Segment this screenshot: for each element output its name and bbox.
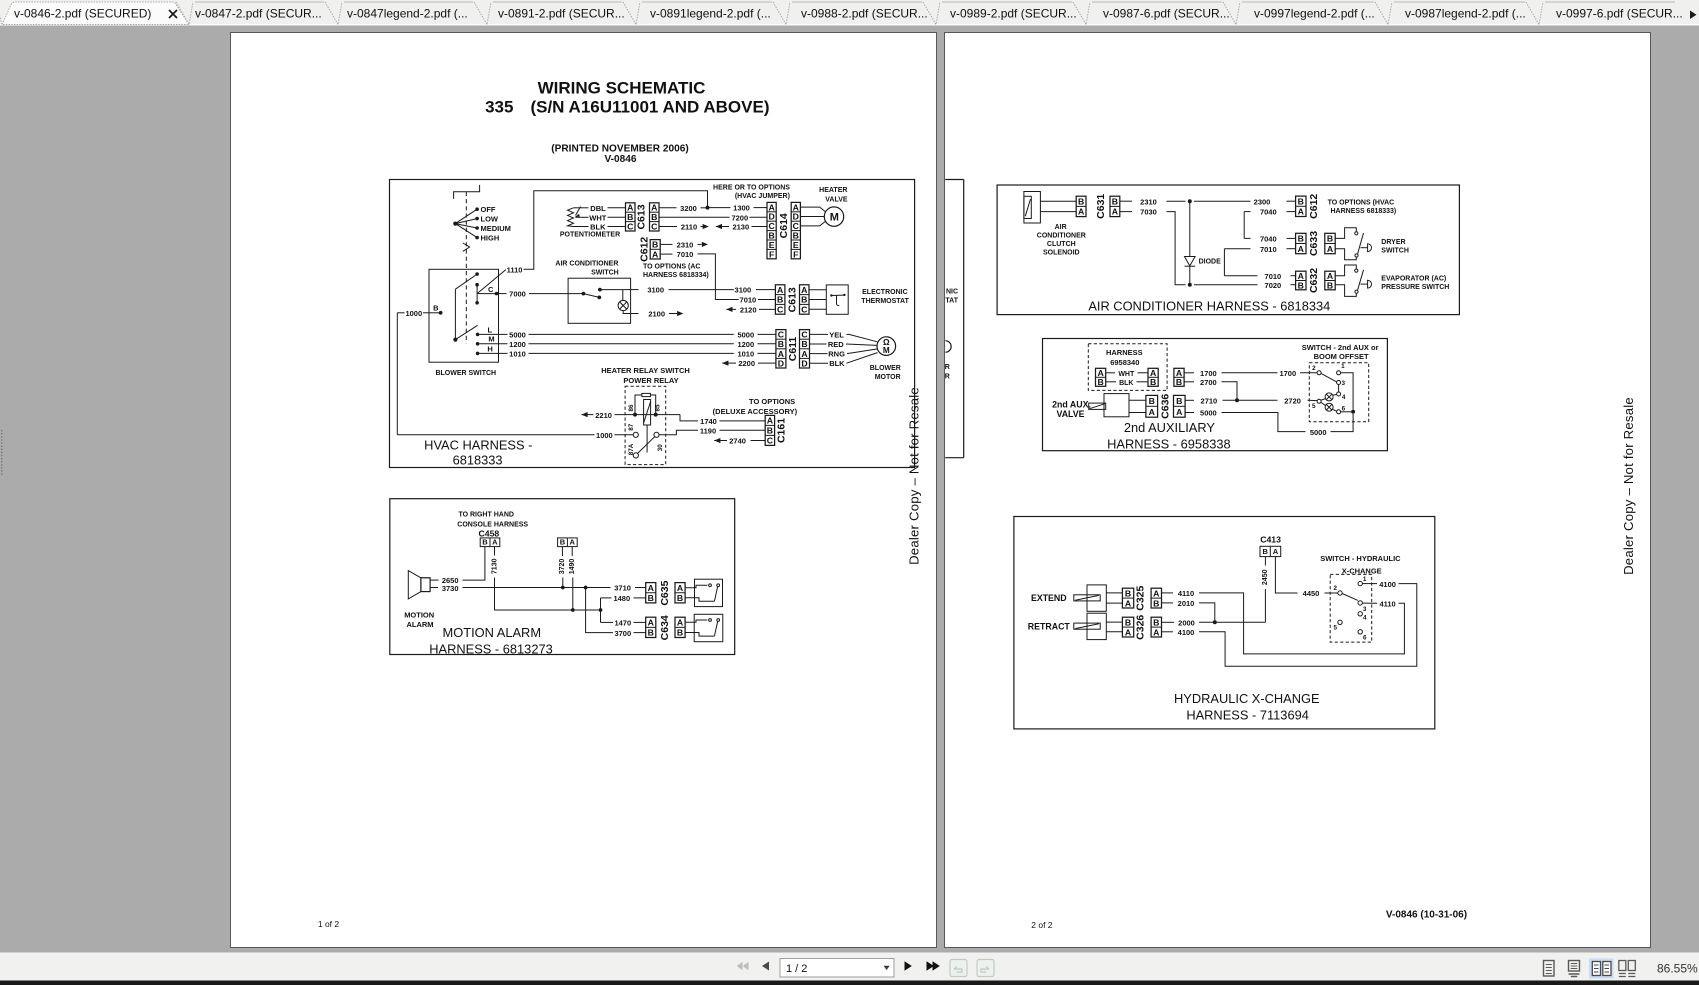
svg-text:SWITCH - HYDRAULIC: SWITCH - HYDRAULIC xyxy=(1320,554,1401,563)
svg-text:HARNESS: HARNESS xyxy=(1106,348,1143,357)
dryer switch xyxy=(1335,228,1356,239)
svg-text:4110: 4110 xyxy=(1379,600,1395,609)
svg-text:C: C xyxy=(627,222,634,232)
svg-text:335 (S/N A16U11001 AND ABOVE): 335 (S/N A16U11001 AND ABOVE) xyxy=(485,97,769,116)
svg-text:WHT: WHT xyxy=(589,213,606,222)
connector C325 right half xyxy=(1151,588,1161,608)
svg-text:BLOWER SWITCH: BLOWER SWITCH xyxy=(435,370,496,377)
svg-text:SWITCH: SWITCH xyxy=(1381,247,1409,254)
heater valve wires xyxy=(800,207,825,212)
svg-text:1200: 1200 xyxy=(509,340,526,349)
svg-text:BLK: BLK xyxy=(829,359,845,368)
svg-text:7040: 7040 xyxy=(1260,235,1277,244)
svg-text:ELECTRONIC: ELECTRONIC xyxy=(862,289,908,296)
svg-text:A: A xyxy=(677,583,684,593)
two page continuous view icon xyxy=(1619,961,1626,971)
svg-text:RETRACT: RETRACT xyxy=(1028,621,1071,631)
svg-text:1000: 1000 xyxy=(596,431,613,440)
wire 1490 xyxy=(571,547,573,556)
wire 1190 from contact 30 xyxy=(659,430,698,435)
svg-text:THERMOSTAT: THERMOSTAT xyxy=(861,298,909,305)
svg-text:3100: 3100 xyxy=(647,286,664,295)
ac indicator lamp xyxy=(618,300,628,310)
wire 3700 branch xyxy=(586,588,613,633)
svg-text:HARNESS - 6813273: HARNESS - 6813273 xyxy=(429,641,553,656)
door switch 2 box xyxy=(694,614,723,641)
svg-text:v-0987-6.pdf (SECUR...: v-0987-6.pdf (SECUR... xyxy=(1103,7,1230,21)
svg-text:F: F xyxy=(793,249,798,259)
2nd auxiliary harness box frame xyxy=(1043,339,1388,451)
svg-text:4: 4 xyxy=(1342,394,1346,401)
previous page button xyxy=(762,962,769,971)
svg-text:B: B xyxy=(1149,396,1155,406)
relay coil xyxy=(642,393,651,396)
blower switch H contact xyxy=(476,352,480,356)
svg-text:Dealer Copy – Not for Resale: Dealer Copy – Not for Resale xyxy=(1621,397,1636,575)
tab bar background xyxy=(0,0,1699,25)
svg-text:BLK: BLK xyxy=(590,223,606,232)
2nd aux valve symbol xyxy=(1104,394,1129,417)
svg-text:B: B xyxy=(648,628,654,638)
svg-text:SOLENOID: SOLENOID xyxy=(1043,249,1080,256)
svg-text:85: 85 xyxy=(655,404,662,412)
switch hydraulic dashed box xyxy=(1330,574,1372,642)
electronic thermostat box xyxy=(826,285,848,314)
connector C613 left half xyxy=(626,203,636,231)
connector C635 right half xyxy=(675,583,685,603)
svg-text:B: B xyxy=(801,339,807,349)
svg-text:2450: 2450 xyxy=(1262,569,1269,585)
svg-text:D: D xyxy=(801,358,807,368)
motion alarm box frame xyxy=(390,499,735,655)
heater valve motor circle xyxy=(824,207,843,226)
svg-text:C: C xyxy=(777,305,784,315)
svg-text:2710: 2710 xyxy=(1201,396,1218,405)
svg-text:5000: 5000 xyxy=(1310,428,1327,437)
svg-text:1700: 1700 xyxy=(1279,369,1296,378)
page 1 sheet xyxy=(231,33,937,948)
svg-text:HARNESS - 7113694: HARNESS - 7113694 xyxy=(1186,707,1309,722)
wire 2650 from C458-B xyxy=(463,547,485,581)
aux lamp 2 links xyxy=(1321,403,1325,406)
aux switch blade xyxy=(1321,373,1337,382)
svg-text:M: M xyxy=(830,212,839,224)
svg-text:MOTION: MOTION xyxy=(404,611,434,620)
wire 1000 bottom run xyxy=(397,434,594,436)
svg-text:C611: C611 xyxy=(787,337,799,362)
svg-text:6: 6 xyxy=(1363,635,1367,642)
wire 1300 xyxy=(710,207,731,209)
tab v-0891-2.pdf (SECUR xyxy=(474,2,491,25)
svg-text:2: 2 xyxy=(1334,585,1338,592)
wire 1200 row xyxy=(479,343,507,345)
connector C631 left half xyxy=(1076,196,1086,216)
svg-text:A: A xyxy=(1273,547,1279,556)
connector C611 right half xyxy=(800,330,810,368)
svg-text:C: C xyxy=(488,285,494,294)
two page view icon (active) xyxy=(1589,959,1614,979)
svg-text:1740: 1740 xyxy=(700,417,717,426)
svg-text:3730: 3730 xyxy=(442,584,459,593)
extend valve symbol xyxy=(1087,585,1106,611)
wire 3200 xyxy=(659,207,677,209)
svg-text:C632: C632 xyxy=(1308,268,1320,293)
svg-text:B: B xyxy=(1078,197,1084,207)
tab v-0997-6.pdf (SECUR xyxy=(1526,2,1543,25)
svg-text:A: A xyxy=(1125,627,1132,637)
svg-text:PRESSURE SWITCH: PRESSURE SWITCH xyxy=(1381,284,1449,291)
svg-text:R: R xyxy=(945,364,950,371)
svg-text:A: A xyxy=(1078,207,1085,217)
wire WHT aux xyxy=(1106,372,1115,374)
svg-text:WHT: WHT xyxy=(1118,371,1135,378)
page number box 1 / 2 xyxy=(780,959,894,978)
svg-text:7040: 7040 xyxy=(1260,208,1277,217)
svg-text:C613: C613 xyxy=(786,287,798,312)
svg-text:M: M xyxy=(883,346,890,355)
svg-text:BLK: BLK xyxy=(1119,380,1133,387)
ac switch left contact xyxy=(582,292,586,296)
svg-text:3720: 3720 xyxy=(559,559,566,575)
ac clutch solenoid symbol xyxy=(1024,192,1041,224)
svg-text:TO OPTIONS (AC: TO OPTIONS (AC xyxy=(643,263,700,270)
svg-text:1470: 1470 xyxy=(614,619,631,628)
svg-text:5: 5 xyxy=(1312,403,1316,410)
svg-text:5000: 5000 xyxy=(509,331,526,340)
svg-text:NIC: NIC xyxy=(946,289,958,296)
rotary switch top bracket xyxy=(454,185,480,199)
page 2 sheet xyxy=(945,33,1651,948)
svg-text:2010: 2010 xyxy=(1178,599,1195,608)
blower motor circle xyxy=(877,337,896,356)
svg-text:1 of 2: 1 of 2 xyxy=(318,919,340,929)
aux switch contact 3-4 link xyxy=(1338,385,1340,393)
svg-text:B: B xyxy=(777,295,783,305)
blower switch L contact xyxy=(476,333,480,337)
wire 3720 xyxy=(561,547,563,556)
door switch 1 contacts xyxy=(685,585,707,587)
wire 1470 stub xyxy=(601,621,614,623)
svg-text:B: B xyxy=(1176,377,1182,387)
aux switch wire from contact 1 xyxy=(1341,373,1354,410)
svg-text:(PRINTED NOVEMBER 2006): (PRINTED NOVEMBER 2006) xyxy=(551,143,688,154)
svg-text:2130: 2130 xyxy=(732,223,749,232)
svg-text:2210: 2210 xyxy=(595,411,612,420)
svg-text:VALVE: VALVE xyxy=(825,196,848,203)
solenoid wires xyxy=(1040,200,1076,202)
svg-text:4450: 4450 xyxy=(1303,589,1320,598)
svg-text:POTENTIOMETER: POTENTIOMETER xyxy=(560,231,620,238)
svg-text:DRYER: DRYER xyxy=(1381,239,1405,246)
ac switch arm xyxy=(583,294,599,298)
svg-text:TO OPTIONS: TO OPTIONS xyxy=(749,397,795,406)
svg-text:2740: 2740 xyxy=(729,437,746,446)
svg-text:2700: 2700 xyxy=(1200,378,1217,387)
wire 2450 from C413-B xyxy=(1264,557,1266,566)
svg-text:B: B xyxy=(482,537,488,546)
svg-text:H: H xyxy=(487,344,492,353)
blower switch lower arm xyxy=(455,325,477,339)
svg-text:A: A xyxy=(801,285,808,295)
svg-text:A: A xyxy=(1112,207,1119,217)
svg-text:EVAPORATOR (AC): EVAPORATOR (AC) xyxy=(1381,275,1446,282)
svg-text:OFF: OFF xyxy=(481,205,496,214)
active tab v-0846-2.pdf (SECURED) xyxy=(2,2,189,25)
svg-text:2 of 2: 2 of 2 xyxy=(1031,920,1053,930)
svg-text:v-0846-2.pdf (SECURED): v-0846-2.pdf (SECURED) xyxy=(14,7,151,21)
wire 1000 left riser xyxy=(396,313,398,435)
svg-text:(HVAC JUMPER): (HVAC JUMPER) xyxy=(735,193,790,200)
svg-text:LOW: LOW xyxy=(481,215,499,224)
svg-text:B: B xyxy=(560,537,566,546)
wire 2000 xyxy=(1162,621,1175,623)
svg-text:EXTEND: EXTEND xyxy=(1031,593,1067,603)
rotary contact LOW xyxy=(475,217,479,221)
svg-text:A: A xyxy=(767,416,774,426)
wire 5000 row xyxy=(479,333,507,335)
svg-text:5: 5 xyxy=(1334,625,1338,632)
valve wires xyxy=(1129,399,1146,401)
wire 3100 run xyxy=(623,289,639,291)
svg-text:B: B xyxy=(1262,547,1268,556)
hyd switch contact 5 xyxy=(1338,620,1342,624)
svg-text:1200: 1200 xyxy=(737,340,754,349)
rotary contact MEDIUM xyxy=(475,226,479,230)
connector C633 left half xyxy=(1296,233,1306,253)
next view button (disabled) xyxy=(977,960,994,977)
svg-text:CONDITIONER: CONDITIONER xyxy=(1037,232,1086,239)
svg-text:B: B xyxy=(1327,280,1333,290)
svg-text:C631: C631 xyxy=(1095,194,1107,219)
svg-text:6818333: 6818333 xyxy=(453,453,503,468)
svg-text:HARNESS - 6958338: HARNESS - 6958338 xyxy=(1107,436,1231,451)
svg-text:B: B xyxy=(648,593,654,603)
close button of active tab xyxy=(169,10,177,18)
svg-text:HEATER RELAY SWITCH: HEATER RELAY SWITCH xyxy=(601,366,690,375)
hyd switch contact 2 xyxy=(1338,591,1342,595)
svg-text:V-0846: V-0846 xyxy=(605,154,637,165)
tab v-0988-2.pdf (SECUR xyxy=(773,2,790,25)
tab v-0997legend-2.pdf ( xyxy=(1223,2,1240,25)
wire 7030 xyxy=(1120,211,1132,213)
svg-text:A: A xyxy=(569,537,575,546)
svg-text:B: B xyxy=(778,339,784,349)
svg-text:B: B xyxy=(433,303,439,312)
svg-text:87: 87 xyxy=(628,423,635,431)
svg-text:1700: 1700 xyxy=(1200,369,1217,378)
hyd switch contact 1 xyxy=(1358,581,1362,585)
svg-text:DIODE: DIODE xyxy=(1199,258,1222,265)
leftmost partial tab edge xyxy=(0,2,2,25)
svg-text:7030: 7030 xyxy=(1140,208,1157,217)
svg-text:Dealer Copy – Not for Resale: Dealer Copy – Not for Resale xyxy=(906,387,921,565)
svg-text:C634: C634 xyxy=(659,615,671,640)
page 2 overlap fragment box xyxy=(963,180,965,458)
svg-text:C413: C413 xyxy=(1260,535,1281,545)
HVAC harness box frame xyxy=(390,180,915,468)
continuous scroll view icon xyxy=(1569,961,1580,972)
connector C614 right half xyxy=(791,202,800,258)
svg-text:B: B xyxy=(767,426,773,436)
wire 2740 with arrow xyxy=(714,438,720,443)
svg-text:86: 86 xyxy=(628,404,635,412)
wire 2110 with arrow xyxy=(659,226,677,228)
svg-text:1110: 1110 xyxy=(507,265,523,274)
connector C612 xyxy=(650,240,660,259)
wire 1740 step xyxy=(680,415,698,421)
svg-text:A: A xyxy=(801,349,808,359)
svg-text:HARNESS 6818334): HARNESS 6818334) xyxy=(643,272,709,279)
connector C636 left half xyxy=(1146,395,1158,417)
svg-text:R: R xyxy=(945,373,950,380)
svg-text:A: A xyxy=(1298,207,1305,217)
svg-text:1: 1 xyxy=(1363,576,1367,583)
svg-text:C633: C633 xyxy=(1308,231,1320,256)
svg-text:C325: C325 xyxy=(1135,585,1147,610)
connector C631 right half xyxy=(1110,196,1120,216)
svg-text:C: C xyxy=(778,330,785,340)
bottom black strip xyxy=(0,981,1699,985)
wire 1010 row xyxy=(479,352,507,354)
svg-text:TAT: TAT xyxy=(945,298,958,305)
evaporator pressure switch xyxy=(1335,265,1356,276)
svg-text:4: 4 xyxy=(1363,615,1367,622)
wire 2210 with arrow xyxy=(581,412,587,417)
svg-text:2110: 2110 xyxy=(681,223,697,232)
retract valve symbol xyxy=(1087,613,1106,639)
svg-text:5000: 5000 xyxy=(1200,409,1217,418)
svg-text:C612: C612 xyxy=(639,237,651,262)
wire 2310 page2 xyxy=(1120,200,1132,202)
svg-text:BLOWER: BLOWER xyxy=(870,365,901,372)
svg-text:86.55%: 86.55% xyxy=(1657,961,1698,975)
wire 2710 2720 run xyxy=(1185,399,1194,401)
connector C326 right half xyxy=(1151,617,1161,637)
tab scroll right arrow xyxy=(1690,11,1697,20)
svg-text:1300: 1300 xyxy=(733,204,750,213)
connector C636 right half xyxy=(1174,395,1186,417)
door switch 1 box xyxy=(695,579,723,606)
svg-text:1010: 1010 xyxy=(737,350,754,359)
svg-text:DBL: DBL xyxy=(590,204,606,213)
single page view icon xyxy=(1544,961,1555,977)
aux lamp 1 links xyxy=(1321,399,1326,401)
wire BLK aux xyxy=(1106,381,1116,383)
svg-text:B: B xyxy=(1125,588,1131,598)
svg-text:C635: C635 xyxy=(659,580,671,605)
aux switch lamp 1 xyxy=(1325,393,1333,401)
svg-text:HEATER: HEATER xyxy=(819,187,847,194)
hyd switch contact 6 xyxy=(1358,630,1362,634)
diode junction top xyxy=(1188,199,1192,203)
wire RED xyxy=(810,343,827,345)
tab v-0987-6.pdf (SECUR xyxy=(1073,2,1090,25)
svg-text:CLUTCH: CLUTCH xyxy=(1047,241,1076,248)
last page button xyxy=(927,961,940,970)
junction 3200/1300 xyxy=(706,206,710,210)
svg-text:HVAC HARNESS -: HVAC HARNESS - xyxy=(424,438,532,453)
svg-text:A: A xyxy=(1153,588,1160,598)
wire 1480 bracket xyxy=(601,597,612,599)
hyd switch blade xyxy=(1342,594,1358,601)
svg-text:HARNESS 6818333): HARNESS 6818333) xyxy=(1331,208,1397,215)
svg-text:B: B xyxy=(1176,396,1182,406)
svg-text:v-0891-2.pdf (SECUR...: v-0891-2.pdf (SECUR... xyxy=(498,7,625,21)
svg-text:C: C xyxy=(801,330,808,340)
connector C634 left half xyxy=(646,617,656,637)
svg-text:C613: C613 xyxy=(636,204,648,229)
svg-text:30: 30 xyxy=(657,444,664,452)
aux switch contact 5 xyxy=(1317,399,1321,403)
svg-text:A: A xyxy=(492,537,498,546)
svg-text:v-0997legend-2.pdf (...: v-0997legend-2.pdf (... xyxy=(1254,7,1375,21)
wire 7010 bracket xyxy=(1224,248,1250,250)
blower switch pivot wire xyxy=(454,289,456,339)
svg-text:1000: 1000 xyxy=(405,309,422,318)
connector C413 xyxy=(1260,546,1281,556)
fragment blower motor arc xyxy=(945,341,951,353)
svg-text:v-0997-6.pdf (SECUR...: v-0997-6.pdf (SECUR... xyxy=(1556,7,1683,21)
thermostat wires xyxy=(809,289,826,291)
svg-text:3: 3 xyxy=(1341,380,1345,387)
svg-text:B: B xyxy=(1112,197,1118,207)
svg-text:4100: 4100 xyxy=(1178,628,1195,637)
blower switch C contact column xyxy=(476,285,478,303)
svg-text:B: B xyxy=(677,628,683,638)
hyd switch contact 3 xyxy=(1358,601,1362,605)
wire 2100 from lamp xyxy=(623,311,638,314)
aux connector pair 2 xyxy=(1148,368,1158,386)
relay contact 87 xyxy=(633,432,638,437)
svg-text:v-0988-2.pdf (SECUR...: v-0988-2.pdf (SECUR... xyxy=(801,7,928,21)
console harness mate connector xyxy=(558,538,578,547)
blower switch M contact xyxy=(476,342,480,346)
svg-text:WIRING SCHEMATIC: WIRING SCHEMATIC xyxy=(538,79,706,98)
svg-text:7020: 7020 xyxy=(1265,281,1282,290)
svg-text:A: A xyxy=(1176,407,1183,417)
navigation pane dotted handle xyxy=(1,430,2,431)
svg-text:7010: 7010 xyxy=(740,296,757,305)
svg-text:MOTOR: MOTOR xyxy=(875,374,901,381)
connector C326 left half xyxy=(1122,617,1133,637)
wire 3730 from speaker xyxy=(430,587,438,589)
next page button xyxy=(905,961,912,970)
rotary contact OFF xyxy=(475,207,479,211)
aux switch contact 1 xyxy=(1337,371,1341,375)
svg-text:B: B xyxy=(677,593,683,603)
wire 7040 bracket xyxy=(1244,211,1250,213)
ac lamp drop xyxy=(622,290,624,301)
svg-text:HERE OR TO OPTIONS: HERE OR TO OPTIONS xyxy=(713,185,790,192)
svg-text:2: 2 xyxy=(1312,365,1316,372)
wire 3100 inside switch xyxy=(600,289,623,291)
svg-text:2300: 2300 xyxy=(1254,197,1271,206)
svg-text:TO OPTIONS (HVAC: TO OPTIONS (HVAC xyxy=(1328,200,1395,207)
wire DBL xyxy=(574,207,589,209)
hyd switch contact 4 xyxy=(1358,612,1362,616)
svg-text:ALARM: ALARM xyxy=(406,620,433,629)
svg-text:1: 1 xyxy=(1341,363,1345,370)
aux switch wire contact 6 to junction xyxy=(1341,411,1352,413)
svg-text:A: A xyxy=(677,617,684,627)
wire RNG xyxy=(810,353,828,355)
wire WHT xyxy=(576,216,589,218)
rotary switch dashed axis xyxy=(465,192,467,343)
harness 6958340 dashed box xyxy=(1088,344,1167,391)
svg-text:A: A xyxy=(1149,407,1156,417)
svg-text:3700: 3700 xyxy=(614,629,631,638)
svg-text:A: A xyxy=(1153,627,1160,637)
